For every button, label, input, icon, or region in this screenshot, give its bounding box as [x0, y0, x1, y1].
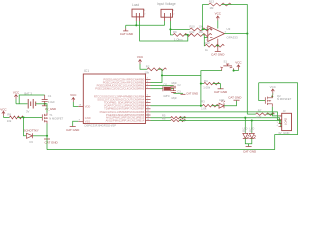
- wire osc2: [151, 88, 163, 90]
- wire T1 drain: [45, 104, 47, 113]
- power VCC R8: [0, 108, 7, 118]
- svg-text:LOAD: LOAD: [284, 118, 288, 125]
- wire Load to sense: [140, 25, 188, 41]
- svg-text:R4: R4: [204, 79, 208, 83]
- svg-text:GND: GND: [85, 116, 91, 120]
- svg-text:BAT 3: BAT 3: [24, 92, 32, 96]
- svg-text:CAT GND: CAT GND: [66, 128, 80, 132]
- svg-text:Load: Load: [132, 3, 139, 7]
- svg-text:LED: LED: [219, 98, 224, 102]
- wire U3 Vminus: [217, 39, 219, 46]
- wire gate drop: [259, 83, 266, 101]
- IC IC1 right pins: [94, 77, 151, 122]
- supply 3V_GND J3: [278, 131, 289, 135]
- resistor R3: [201, 100, 218, 111]
- wire vcc to R2: [140, 64, 147, 69]
- svg-text:1.0k: 1.0k: [256, 115, 262, 119]
- svg-text:CAT GND: CAT GND: [186, 92, 198, 96]
- svg-text:R8: R8: [7, 113, 11, 117]
- connector J1 Load: [132, 3, 146, 21]
- wire U3 output: [225, 33, 248, 35]
- wire R11 to inv input: [202, 35, 208, 38]
- wire R5 row: [179, 118, 281, 124]
- svg-text:VCC: VCC: [215, 12, 222, 16]
- resistor R4: [201, 79, 221, 90]
- svg-text:VCC: VCC: [0, 108, 7, 112]
- LED D4: [243, 118, 250, 139]
- junction R8: [22, 116, 24, 118]
- resistor R12: [205, 41, 225, 52]
- svg-text:OPA333: OPA333: [227, 36, 238, 40]
- svg-text:D3: D3: [30, 140, 34, 144]
- wire R6 row: [179, 121, 281, 127]
- power VCC IC: [70, 93, 77, 102]
- svg-text:1 Ohm: 1 Ohm: [174, 37, 183, 41]
- ground CAT GND IC: [66, 127, 80, 132]
- svg-text:VCC: VCC: [13, 90, 20, 94]
- svg-text:PGEC2/EMUC2/OSC2/CLKO/CN29/RA3: PGEC2/EMUC2/OSC2/CLKO/CN29/RA3: [95, 87, 144, 91]
- wire battery plus: [16, 95, 45, 104]
- wire inv node down: [203, 37, 206, 45]
- svg-text:VCC: VCC: [270, 85, 277, 89]
- wire Q2 source: [272, 107, 281, 116]
- wire InputVoltage pin1 down: [164, 21, 166, 25]
- battery BAT1: [24, 92, 35, 114]
- wire bottom rail: [47, 149, 275, 151]
- wire VCC to IC: [73, 102, 78, 106]
- power VCC S1: [235, 61, 242, 71]
- LED D5: [249, 121, 256, 139]
- svg-text:10k: 10k: [199, 30, 204, 34]
- svg-text:R11: R11: [190, 30, 195, 34]
- wire source to rail: [46, 136, 48, 150]
- power VCC battery: [13, 90, 20, 103]
- resistor R5: [151, 114, 186, 120]
- capacitor C3: [171, 91, 181, 100]
- svg-text:CAT GND: CAT GND: [228, 96, 242, 100]
- svg-text:Input Voltage: Input Voltage: [157, 2, 176, 6]
- svg-text:R13: R13: [209, 0, 215, 4]
- svg-text:R12: R12: [205, 41, 211, 45]
- junction MCLR: [161, 74, 163, 76]
- svg-text:1M: 1M: [210, 6, 215, 10]
- wire gate loop: [259, 83, 298, 150]
- svg-text:S1: S1: [224, 60, 228, 64]
- wire to R10: [170, 28, 189, 30]
- power U3 VCC: [215, 12, 222, 29]
- svg-text:N MOSFET: N MOSFET: [277, 97, 292, 101]
- op-amp U3: [208, 26, 238, 42]
- wire IC vss: [73, 121, 79, 126]
- svg-text:VCC: VCC: [137, 55, 144, 59]
- wire caps common: [174, 92, 183, 94]
- wire row RB5: [151, 112, 282, 120]
- svg-text:CAT GND: CAT GND: [45, 140, 59, 144]
- wire Load node: [126, 24, 165, 26]
- junction Q2 source: [271, 113, 273, 115]
- wire Load pins to node: [136, 21, 139, 25]
- svg-text:R3: R3: [201, 100, 205, 104]
- wire osc1: [151, 85, 174, 87]
- wire gate node down: [24, 117, 27, 135]
- wire feedback left: [203, 5, 209, 30]
- svg-text:SCHOTTKY: SCHOTTKY: [24, 128, 39, 132]
- svg-text:AN11/PMA12/RP14/CN12/RB14: AN11/PMA12/RP14/CN12/RB14: [106, 118, 145, 122]
- transistor Q2 NMOSFET: [265, 94, 291, 107]
- connector J2 Input Voltage: [157, 2, 176, 21]
- resistor R9: [170, 30, 192, 41]
- svg-text:VCC: VCC: [70, 93, 77, 97]
- diode D3 schottky: [24, 128, 48, 144]
- svg-text:R9: R9: [173, 30, 177, 34]
- junction battery minus: [44, 103, 46, 105]
- resistor R8: [3, 113, 23, 123]
- resistor R7: [247, 109, 274, 120]
- junction LED2: [251, 119, 253, 121]
- power VCC Q2: [270, 85, 277, 95]
- wire R2 to MCLR: [151, 69, 163, 82]
- svg-text:CAT GND: CAT GND: [214, 90, 228, 94]
- junction output: [246, 33, 248, 35]
- wire LED3 cathode: [224, 101, 237, 106]
- junction R12: [217, 45, 219, 47]
- connector J3: [277, 109, 292, 130]
- switch S1: [220, 60, 233, 71]
- svg-text:C1: C1: [48, 94, 52, 98]
- svg-text:IC1: IC1: [84, 69, 89, 73]
- power VCC R2: [137, 55, 144, 64]
- wire S1 riser: [201, 71, 222, 76]
- wire LED cathodes: [245, 138, 252, 146]
- junction IV: [169, 28, 171, 30]
- wire MCLR to S1: [162, 74, 201, 76]
- junction A: [187, 34, 189, 36]
- svg-text:10k: 10k: [7, 119, 12, 123]
- svg-text:R6: R6: [162, 117, 166, 121]
- crystal Y1 1MHz: [163, 83, 174, 97]
- pin numbers U3: [206, 28, 227, 42]
- resistor R11: [190, 30, 212, 36]
- svg-text:CAT GND: CAT GND: [243, 149, 257, 153]
- wire row R3: [151, 105, 203, 107]
- svg-text:3V: 3V: [26, 109, 30, 113]
- svg-text:CAT GND: CAT GND: [120, 32, 134, 36]
- ground CAT GND at Load: [120, 25, 134, 36]
- wire T1 source: [46, 124, 48, 136]
- junction Q2 drain: [271, 95, 273, 97]
- svg-text:1.0k: 1.0k: [201, 107, 207, 111]
- capacitor C2: [171, 82, 181, 91]
- svg-text:3V_GND: 3V_GND: [45, 107, 56, 111]
- resistor R10: [190, 25, 212, 31]
- svg-text:VCC: VCC: [235, 61, 242, 65]
- svg-text:18pF: 18pF: [171, 97, 177, 100]
- svg-text:3.3uF: 3.3uF: [48, 100, 55, 104]
- svg-text:N MOSFET: N MOSFET: [49, 116, 63, 120]
- ground CAT GND LEDs: [243, 147, 257, 154]
- svg-text:T1: T1: [49, 113, 53, 117]
- transistor T1 NMOSFET: [42, 113, 63, 124]
- IC IC1 dsPIC33 microcontroller: [83, 69, 145, 127]
- svg-text:U3: U3: [227, 27, 231, 31]
- junction Load: [135, 24, 137, 26]
- svg-text:DSPIC33FJ64GP202-I/SP: DSPIC33FJ64GP202-I/SP: [85, 123, 117, 127]
- ground CAT GND U3: [211, 46, 225, 57]
- svg-text:CAT GND: CAT GND: [211, 53, 225, 57]
- resistor R13: [209, 0, 232, 10]
- svg-text:3V_GND: 3V_GND: [278, 131, 289, 135]
- LED D3: [219, 98, 225, 108]
- resistor R2: [145, 65, 167, 75]
- wire feedback right: [222, 5, 248, 115]
- wire R8 to gate: [17, 116, 42, 118]
- IC IC1 left pins: [78, 104, 90, 123]
- junction row R3: [200, 105, 202, 107]
- wire S1 to VCC: [234, 70, 239, 72]
- wire battery minus: [36, 103, 45, 105]
- wire InputVoltage pin2 down: [169, 21, 171, 35]
- ground CAT GND osc: [181, 92, 199, 96]
- ground CAT GND R4: [214, 84, 228, 94]
- resistor R6: [151, 117, 186, 123]
- wire S1 node down: [200, 75, 202, 105]
- ground CAT GND T1: [44, 139, 59, 144]
- junction S1 vcc: [233, 70, 235, 72]
- svg-text:R2: R2: [146, 65, 150, 69]
- junction feedback: [202, 28, 204, 30]
- svg-text:VDD: VDD: [85, 104, 91, 108]
- ground CAT GND LED3: [228, 96, 242, 101]
- junction R4: [200, 83, 202, 85]
- junction D3: [46, 135, 48, 137]
- svg-text:1.00k: 1.00k: [203, 86, 210, 90]
- svg-text:R10: R10: [190, 25, 196, 29]
- junction LED1: [244, 117, 246, 119]
- svg-text:R7: R7: [258, 109, 262, 113]
- capacitor C1: [42, 94, 55, 105]
- supply 3V_GND C1: [42, 106, 56, 111]
- svg-text:1MHz: 1MHz: [163, 95, 170, 98]
